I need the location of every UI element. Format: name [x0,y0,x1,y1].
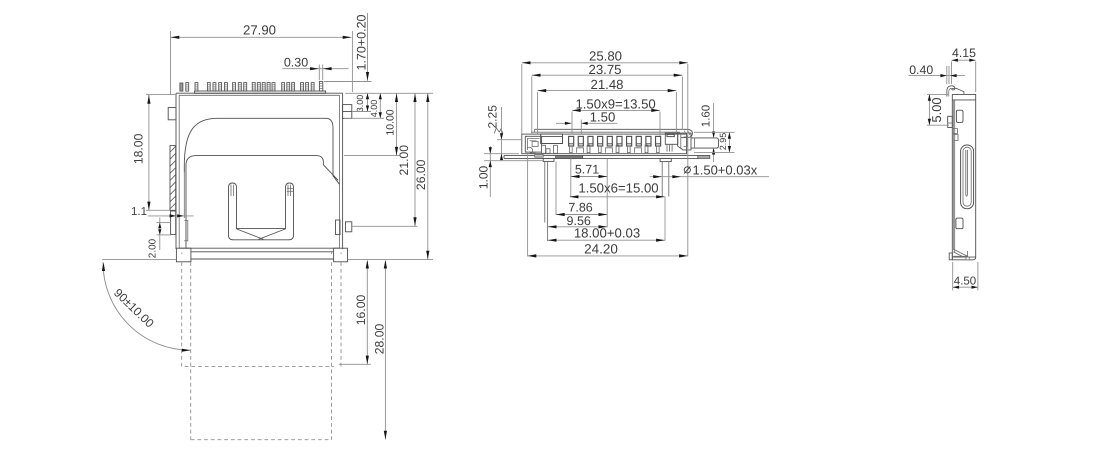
dim 4.15 line [952,59,976,61]
front view: left inner jog [184,221,188,241]
bottom view: ejector block [678,133,691,150]
dim 1.00 line [489,146,491,197]
front view: body top edge [176,92,343,94]
front view: spring left arm ticks [230,185,232,196]
front view: 21 solder pins [180,83,183,91]
bottom view: right foot tab [660,158,671,161]
svg-text:0.30: 0.30 [284,56,308,70]
svg-text:4.50: 4.50 [954,276,976,288]
side view: top band line [952,99,975,101]
dim 4.00 line [379,93,381,118]
dim 21.48 ext [537,92,539,134]
front view: eject spring outer U [229,183,294,240]
front view: bottom rail [191,251,334,253]
svg-text:5.00: 5.00 [929,98,944,123]
dim 4.50 ext [952,262,954,291]
ext 5.71 left [570,159,572,198]
bottom view: 10 contact slots [569,136,574,146]
bottom view: plate left gray piece [535,155,544,158]
dim 1.00 ext [484,153,519,155]
card dashed outer left [181,262,183,366]
front view: shell contour A [184,118,339,184]
side view: bottom wedge [953,249,967,256]
dim 0.40 ext [946,66,948,84]
dim 2.00 ext lines [157,222,172,224]
front view: lower right outer tab [346,222,352,232]
card dashed outer right [340,262,342,366]
angle arc arrows [102,262,105,271]
side view: left edge steps [953,129,958,134]
bottom view: plate hatched bar [556,155,583,158]
dim 21.48 line [538,90,677,92]
dim 25.80 ext left [521,64,523,134]
front view: left foot [176,248,191,262]
dim 18.00 ext lines [146,94,176,96]
side view: upper inner rect [956,110,963,122]
bottom view: wide contact rect [541,134,563,144]
dim 10.00 line [396,93,398,155]
ext 5.71 right [606,159,608,228]
dim 2.00 line [159,218,161,251]
front view: body bottom line [179,247,340,249]
side view: inner left wall [954,100,956,252]
bottom view: detect spring zigzag [494,128,503,134]
side view: bottom band [952,256,975,258]
bottom view: posts under wide rect [542,145,546,153]
bottom view: body outline [522,134,687,154]
dim 2.25 line [501,107,503,160]
front view: shell contour A left lower [183,172,185,218]
dim 1.50 ext [580,120,582,135]
top edge right ext line [345,92,433,94]
dim 23.75 ext [531,77,533,134]
dim 23.75 line [532,74,683,76]
dim 21.00 line [414,93,416,226]
svg-text:16.00: 16.00 [354,295,368,326]
svg-text:1.50x6=15.00: 1.50x6=15.00 [578,181,658,196]
dim 1.50 line [556,122,571,124]
dim 5.00 ext [927,93,948,95]
dim 27.90 line [171,36,352,38]
svg-text:3.00: 3.00 [355,95,365,113]
bottom view: plate right end tab [698,155,710,158]
ext 7.86 left [555,162,557,216]
front view: upper left tab [168,108,176,120]
bottom view: left foot tab [543,158,554,161]
shared right ext line [687,64,689,256]
bottom view: base plate [504,154,699,156]
svg-text:23.75: 23.75 [588,62,621,77]
card dashed inner left [190,262,192,440]
side view: bottom left step [949,253,952,260]
front view: right foot [334,248,348,262]
front view: spring bottom chevron [237,229,264,240]
foot bottom right ext line [348,259,434,261]
dim 18.00+0.03 line [548,239,665,241]
front view: spring right arm ticks [287,185,289,196]
svg-text:1.50x9=13.50: 1.50x9=13.50 [575,97,655,112]
side view: slot tongue [966,150,968,196]
svg-text:18.00: 18.00 [132,133,146,164]
svg-text:24.20: 24.20 [584,241,618,256]
svg-text:1.70+0.20: 1.70+0.20 [355,14,369,70]
bottom view: left end inner box [527,139,539,151]
front view: hatched bar [170,146,176,211]
svg-text:5.71: 5.71 [575,163,599,177]
card dashed mid line [185,366,334,368]
dim 3.00 line [367,93,369,111]
svg-text:7.86: 7.86 [568,201,592,215]
dim phi text [684,167,690,173]
dim 5.71 line [571,176,607,178]
dim 7.86 line [556,214,607,216]
dim 9.56 line [548,226,607,228]
bottom view: left peg [544,161,546,222]
bottom view: lower posts [570,146,573,152]
bottom view: right peg [661,162,663,197]
front view: body left edge [175,93,177,249]
svg-text:2.95: 2.95 [718,133,728,151]
dim 2.25 ext [497,139,521,141]
svg-text:18.00+0.03: 18.00+0.03 [574,225,640,240]
card dashed marks in feet [181,253,183,257]
svg-text:10.00: 10.00 [384,109,396,135]
svg-text:4.15: 4.15 [952,46,976,60]
side view: left tab [948,116,953,127]
dim 2.95 ext [694,131,735,133]
svg-text:2.25: 2.25 [485,105,499,129]
svg-text:0.40: 0.40 [909,63,933,77]
side view: lower inner rect [956,218,963,229]
dim 1.50x6 line [570,196,665,198]
svg-text:21.48: 21.48 [590,77,623,92]
card dashed bottom line [191,439,332,441]
front view: hatch lines [170,146,176,152]
bottom view: left end box [525,136,541,152]
front view: body right edge [342,93,344,249]
dim 5.00 line [928,94,930,125]
card dashed inner right [331,262,333,440]
dim 26.00 line [427,93,429,259]
dim 2.95 line [728,132,730,152]
dim 4.50 line [953,286,978,288]
foot bottom left ext line [102,259,176,261]
dim 25.80 line [522,62,688,64]
front view: left mid tab [171,211,176,234]
angle arc 90+-10.00 [103,262,191,350]
svg-text:21.00: 21.00 [397,145,411,176]
svg-text:1.50: 1.50 [590,109,616,124]
bottom view: top strip [535,128,688,130]
dim 0.30 ext lines [318,65,320,81]
dim 1.70+0.20 line [367,13,369,81]
svg-text:26.00: 26.00 [414,159,428,190]
side view: top hook curl [947,86,964,97]
dim 0.30 arrows [310,67,319,70]
dim 16.00 line [366,262,368,365]
front view: tall pin (0.30 thick) [319,81,322,91]
side view: long slot outer [961,145,974,209]
dim 18.00 line [148,95,150,210]
dim 1.60 line [713,103,715,138]
bottom view: ejector rod [691,138,719,148]
side view: body outline [952,94,975,259]
svg-text:1.50+0.03x: 1.50+0.03x [693,162,758,177]
svg-text:1.1: 1.1 [131,206,147,218]
svg-text:2.00: 2.00 [148,238,159,258]
dim 28.00 line [384,262,386,440]
front view: pin header bar [195,91,326,93]
dim 1.1 line [148,215,194,217]
dim 24.20 line [528,255,688,257]
dim 1.50x9 line [572,109,660,111]
dim 0.40 line [909,75,966,77]
svg-text:28.00: 28.00 [373,324,387,355]
svg-text:4.00: 4.00 [369,100,379,118]
bottom view: strip right cap [681,129,692,137]
bottom view: left end small rect [532,141,538,146]
dim phi line [650,176,769,178]
svg-text:1.60: 1.60 [701,105,713,127]
dim 4.15 ext [951,62,953,85]
bottom view: left end hook [528,147,536,153]
svg-text:27.90: 27.90 [243,22,276,37]
svg-text:1.00: 1.00 [476,165,490,189]
bottom view: right notch box [665,133,677,144]
front view: lower right inner tab [336,220,341,235]
side view: long slot inner [963,147,971,206]
front view: upper right tab [343,105,352,119]
ext 24.20 left [527,155,529,257]
dim 27.90 ext lines [170,31,172,95]
bottom view: right posts [666,144,668,151]
front view: shell contour B [186,156,338,249]
dim 1.50x9 ext [571,112,573,135]
